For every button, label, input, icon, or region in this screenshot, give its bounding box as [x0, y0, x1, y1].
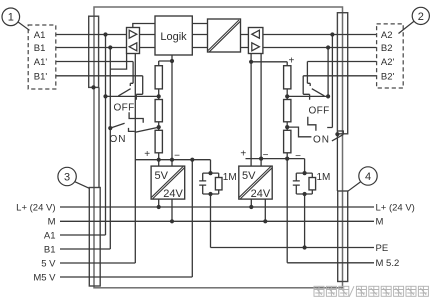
svg-text:A2: A2 [381, 30, 393, 41]
svg-text:−: − [263, 150, 269, 161]
svg-text:1M: 1M [223, 172, 237, 183]
svg-text:24V: 24V [251, 188, 271, 200]
svg-text:Logik: Logik [160, 31, 187, 43]
svg-text:B1: B1 [34, 43, 46, 54]
svg-text:−: − [174, 150, 180, 161]
svg-text:+: + [240, 148, 246, 159]
svg-text:A1: A1 [44, 230, 56, 241]
svg-text:A1': A1' [34, 57, 48, 68]
svg-text:5V: 5V [242, 170, 256, 182]
svg-text:24V: 24V [163, 188, 183, 200]
svg-text:M: M [376, 217, 384, 228]
svg-text:OFF: OFF [114, 102, 135, 113]
svg-text:B2: B2 [381, 43, 393, 54]
svg-text:M5 V: M5 V [33, 272, 56, 283]
svg-text:+: + [288, 55, 294, 66]
svg-text:3: 3 [64, 171, 70, 183]
svg-text:A1: A1 [34, 30, 46, 41]
svg-text:M 5.2: M 5.2 [376, 258, 400, 269]
svg-text:B1: B1 [44, 244, 56, 255]
svg-text:2: 2 [418, 11, 424, 23]
svg-text:+: + [144, 149, 150, 160]
svg-text:B1': B1' [34, 71, 48, 82]
svg-text:M: M [48, 217, 56, 228]
svg-text:−: − [295, 151, 301, 162]
svg-text:ON: ON [110, 134, 127, 145]
svg-text:B2': B2' [381, 71, 395, 82]
svg-text:A2': A2' [381, 57, 395, 68]
svg-text:5 V: 5 V [41, 258, 56, 269]
svg-text:1M: 1M [317, 172, 331, 183]
svg-text:1: 1 [8, 12, 14, 24]
svg-text:ON: ON [313, 135, 330, 146]
svg-text:L+ (24 V): L+ (24 V) [16, 202, 55, 213]
svg-text:PE: PE [376, 243, 389, 254]
svg-text:4: 4 [365, 171, 371, 183]
svg-text:5V: 5V [155, 170, 169, 182]
svg-text:OFF: OFF [309, 106, 330, 117]
svg-text:L+ (24 V): L+ (24 V) [376, 203, 415, 214]
